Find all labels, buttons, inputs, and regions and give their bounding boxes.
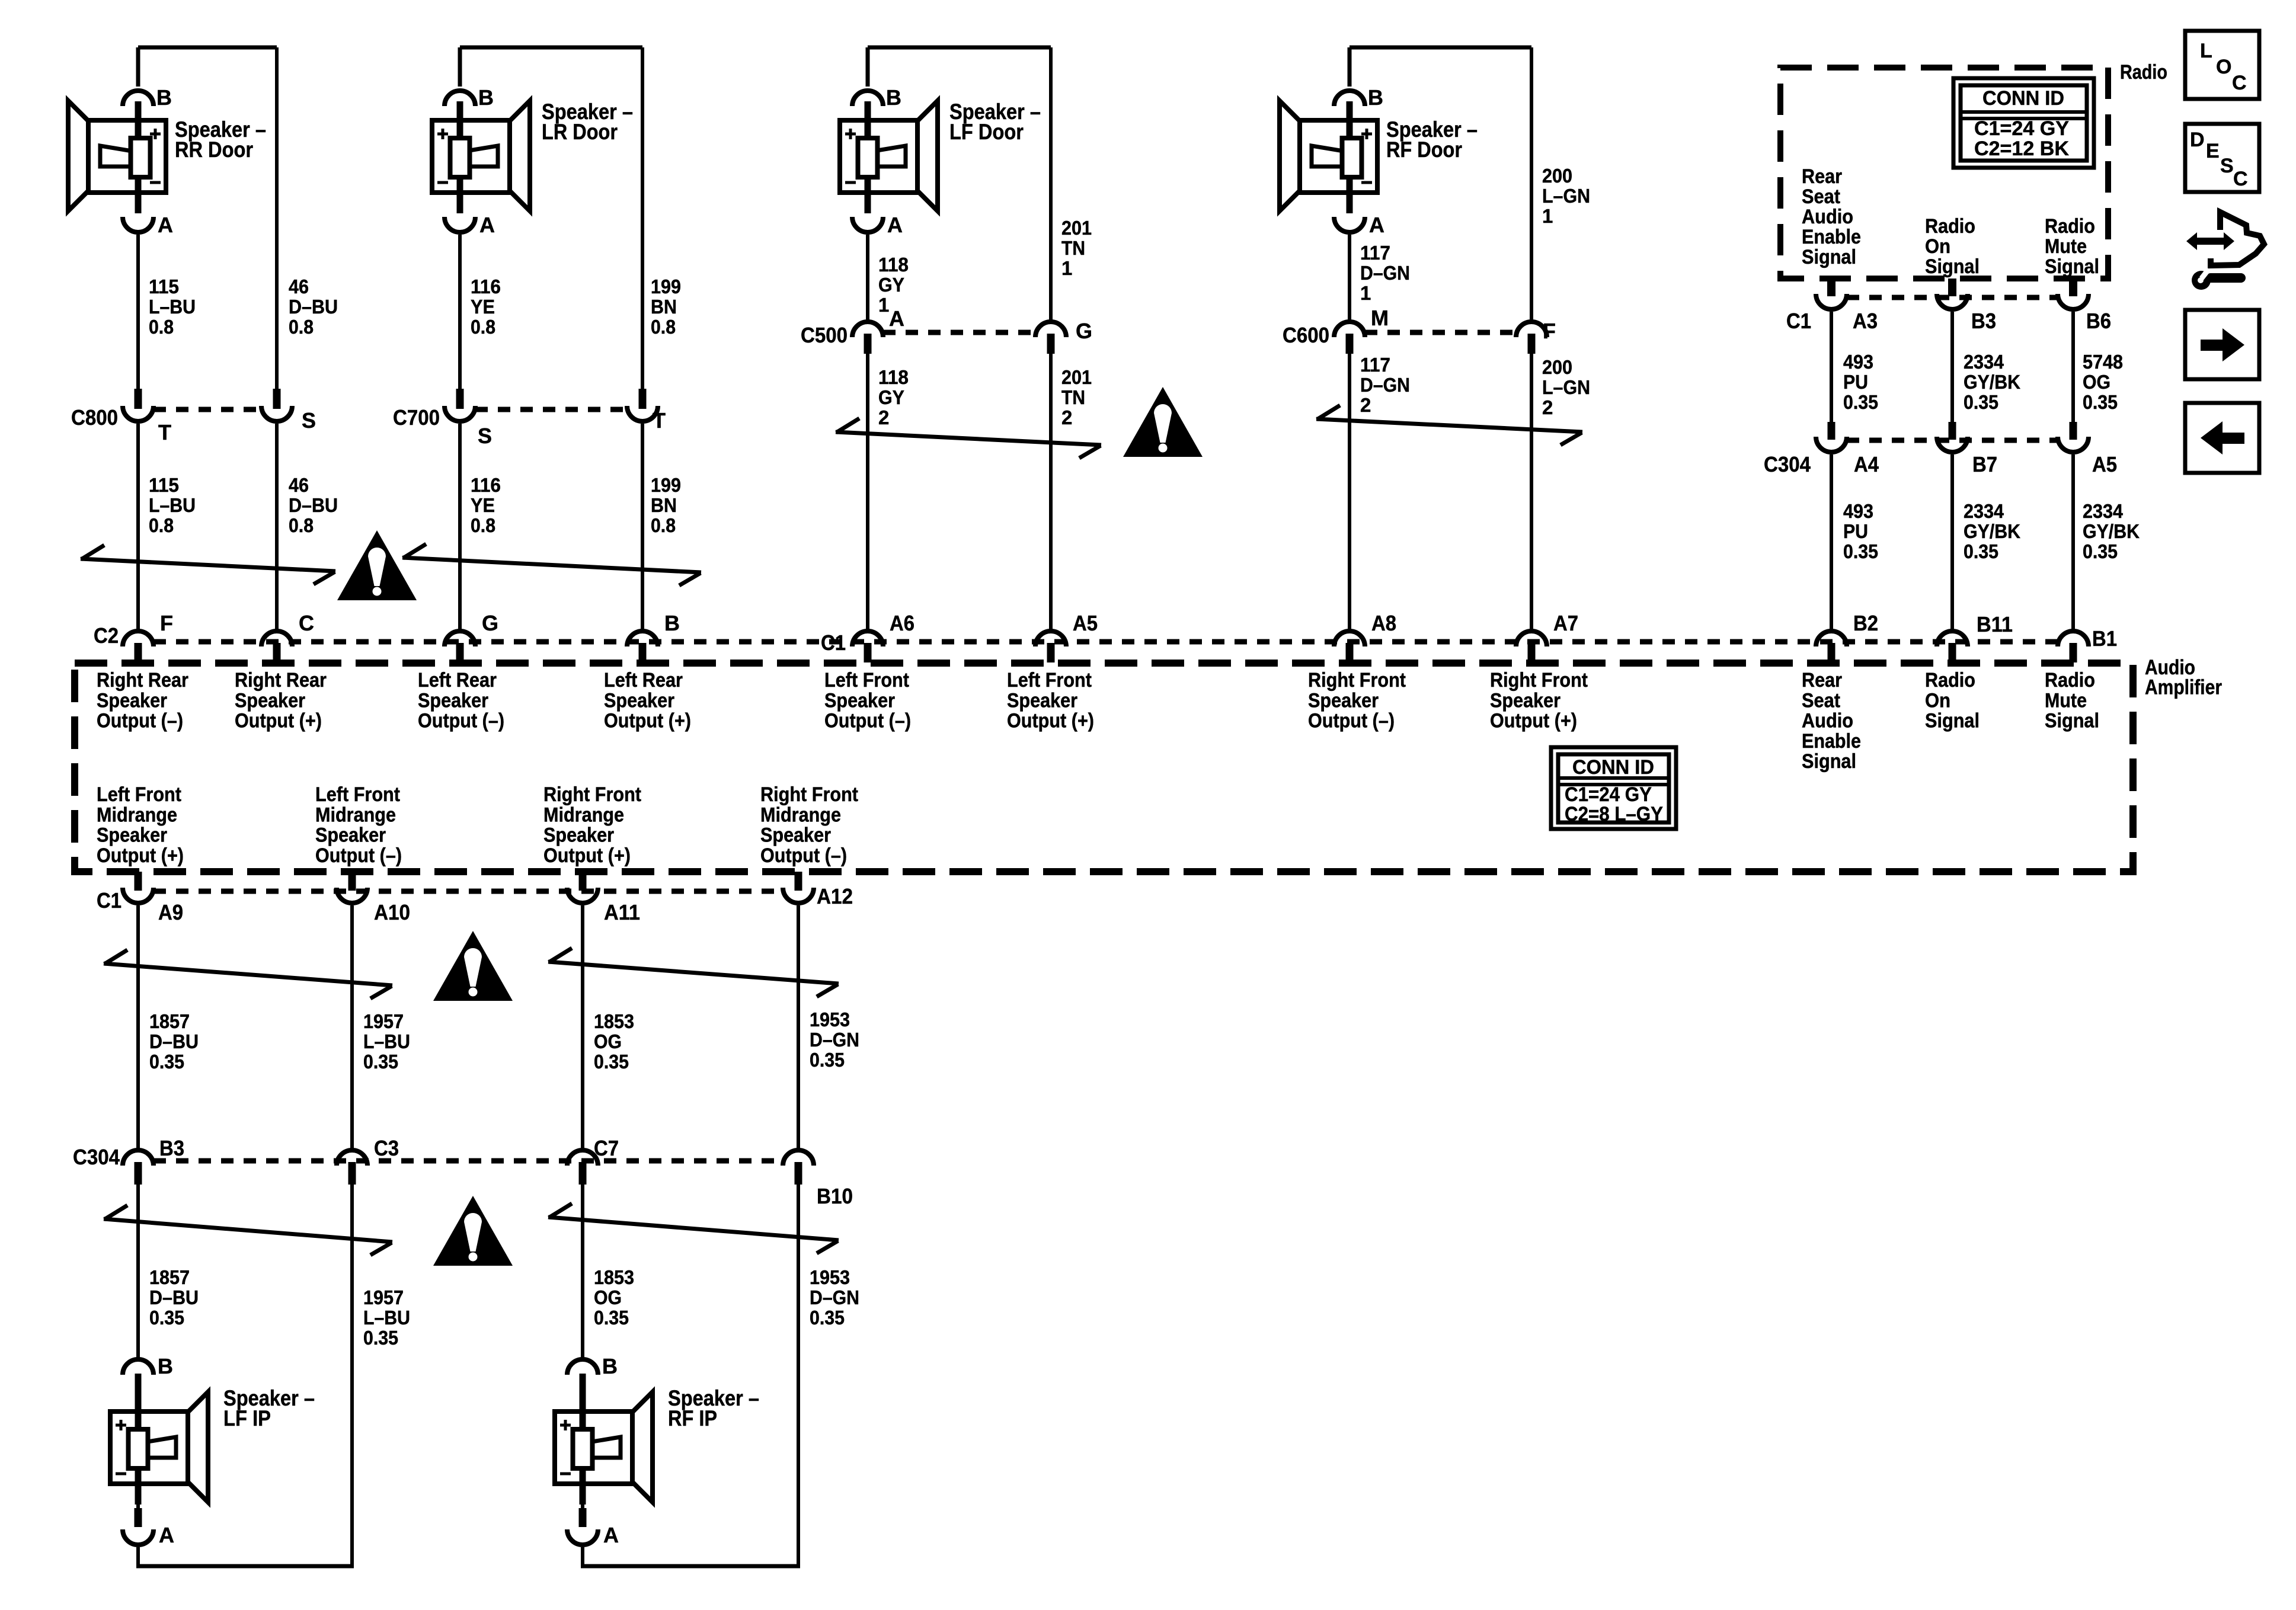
svg-text:C: C <box>2233 168 2248 190</box>
svg-text:C700: C700 <box>393 405 440 430</box>
svg-text:Speaker: Speaker <box>315 824 386 847</box>
svg-text:Left Front: Left Front <box>824 669 909 692</box>
svg-text:B: B <box>664 611 680 635</box>
svg-text:Left Rear: Left Rear <box>604 669 683 692</box>
svg-text:1853: 1853 <box>594 1266 634 1288</box>
svg-text:O: O <box>2216 56 2231 78</box>
svg-text:0.35: 0.35 <box>1964 391 1998 413</box>
svg-text:2: 2 <box>1360 394 1371 416</box>
svg-text:Radio: Radio <box>1925 669 1975 692</box>
svg-text:Signal: Signal <box>2045 255 2099 278</box>
svg-text:RR Door: RR Door <box>175 137 253 162</box>
svg-text:C500: C500 <box>801 323 848 347</box>
svg-text:Speaker: Speaker <box>824 689 895 712</box>
svg-text:LR Door: LR Door <box>542 120 618 144</box>
svg-text:T: T <box>158 420 171 444</box>
svg-text:Output (–): Output (–) <box>760 844 847 867</box>
svg-text:Signal: Signal <box>1802 246 1856 268</box>
svg-text:200: 200 <box>1542 165 1572 187</box>
svg-text:0.8: 0.8 <box>471 514 495 536</box>
svg-text:Speaker: Speaker <box>1490 689 1560 712</box>
svg-text:46: 46 <box>289 276 309 297</box>
svg-text:Signal: Signal <box>2045 710 2099 732</box>
svg-text:Output (+): Output (+) <box>97 844 184 867</box>
svg-text:A9: A9 <box>158 900 183 924</box>
svg-text:1857: 1857 <box>149 1010 190 1032</box>
svg-text:0.35: 0.35 <box>363 1051 398 1073</box>
svg-text:F: F <box>160 611 173 635</box>
svg-text:0.8: 0.8 <box>651 514 676 536</box>
svg-text:OG: OG <box>2083 371 2110 393</box>
svg-text:2334: 2334 <box>1964 351 2004 373</box>
svg-text:Output (+): Output (+) <box>235 710 322 732</box>
svg-text:S: S <box>2220 155 2234 177</box>
svg-text:Speaker: Speaker <box>543 824 614 847</box>
svg-text:Speaker: Speaker <box>97 689 167 712</box>
svg-text:2334: 2334 <box>2083 500 2124 522</box>
svg-text:1953: 1953 <box>810 1009 850 1030</box>
svg-text:B3: B3 <box>1971 309 1996 333</box>
svg-text:Speaker: Speaker <box>1007 689 1077 712</box>
svg-text:Seat: Seat <box>1802 689 1840 712</box>
svg-text:C1: C1 <box>97 888 121 913</box>
svg-text:2: 2 <box>878 406 889 428</box>
svg-text:117: 117 <box>1360 242 1390 264</box>
svg-text:A5: A5 <box>1073 611 1098 635</box>
svg-text:D–BU: D–BU <box>149 1286 199 1308</box>
svg-text:Mute: Mute <box>2045 235 2087 258</box>
svg-text:199: 199 <box>651 276 681 297</box>
svg-text:Speaker: Speaker <box>604 689 674 712</box>
svg-text:Output (–): Output (–) <box>824 710 911 732</box>
svg-text:L–GN: L–GN <box>1542 376 1590 398</box>
svg-text:D–GN: D–GN <box>1360 374 1410 396</box>
svg-text:L–BU: L–BU <box>149 494 196 516</box>
svg-text:A12: A12 <box>817 884 853 908</box>
svg-text:Output (+): Output (+) <box>543 844 631 867</box>
svg-text:L–GN: L–GN <box>1542 185 1590 207</box>
svg-text:OG: OG <box>594 1286 622 1308</box>
svg-text:Right Front: Right Front <box>760 783 858 806</box>
svg-text:1: 1 <box>1061 257 1072 279</box>
svg-text:LF Door: LF Door <box>949 120 1024 144</box>
svg-text:Mute: Mute <box>2045 689 2087 712</box>
svg-text:2: 2 <box>1542 396 1553 418</box>
svg-text:Left Front: Left Front <box>97 783 181 806</box>
svg-text:0.35: 0.35 <box>594 1307 629 1329</box>
svg-text:5748: 5748 <box>2083 351 2123 373</box>
svg-text:C2=8 L–GY: C2=8 L–GY <box>1565 803 1663 825</box>
svg-text:0.8: 0.8 <box>289 316 314 338</box>
svg-text:D–GN: D–GN <box>810 1286 859 1308</box>
svg-text:0.35: 0.35 <box>149 1307 184 1329</box>
svg-text:Radio: Radio <box>2045 669 2095 692</box>
svg-text:Audio: Audio <box>1802 710 1853 732</box>
svg-text:117: 117 <box>1360 354 1390 376</box>
svg-text:C600: C600 <box>1283 323 1329 347</box>
svg-text:BN: BN <box>651 494 677 516</box>
svg-text:Speaker: Speaker <box>760 824 831 847</box>
svg-text:B: B <box>886 85 901 110</box>
svg-text:Midrange: Midrange <box>315 804 396 826</box>
svg-text:Enable: Enable <box>1802 226 1861 248</box>
svg-text:A11: A11 <box>604 900 640 924</box>
svg-text:C1: C1 <box>821 630 846 655</box>
svg-text:Radio: Radio <box>1925 215 1975 238</box>
svg-text:RF IP: RF IP <box>668 1406 717 1430</box>
svg-text:200: 200 <box>1542 356 1572 378</box>
svg-text:On: On <box>1925 689 1950 712</box>
svg-text:C: C <box>2232 72 2247 94</box>
svg-text:0.8: 0.8 <box>471 316 495 338</box>
svg-text:M: M <box>1371 306 1389 330</box>
svg-text:Radio: Radio <box>2120 61 2167 84</box>
svg-text:A: A <box>479 213 495 237</box>
svg-text:YE: YE <box>471 296 495 318</box>
svg-text:C1=24 GY: C1=24 GY <box>1974 117 2069 140</box>
svg-text:PU: PU <box>1843 371 1868 393</box>
svg-text:A5: A5 <box>2092 452 2117 476</box>
svg-text:OG: OG <box>594 1030 622 1052</box>
svg-text:1: 1 <box>1542 205 1553 227</box>
svg-text:G: G <box>1076 319 1092 343</box>
svg-text:L: L <box>2200 40 2212 62</box>
svg-text:199: 199 <box>651 474 681 496</box>
svg-text:B10: B10 <box>817 1184 853 1208</box>
svg-text:C: C <box>299 611 314 635</box>
svg-text:Output (+): Output (+) <box>1007 710 1094 732</box>
svg-text:Right Front: Right Front <box>543 783 641 806</box>
svg-text:Seat: Seat <box>1802 185 1840 208</box>
svg-text:C2: C2 <box>94 623 119 648</box>
svg-text:Speaker: Speaker <box>235 689 305 712</box>
svg-text:Right Front: Right Front <box>1308 669 1406 692</box>
svg-text:115: 115 <box>149 474 179 496</box>
svg-text:0.35: 0.35 <box>594 1051 629 1073</box>
svg-text:TN: TN <box>1061 237 1085 259</box>
svg-text:B7: B7 <box>1972 452 1997 476</box>
svg-text:Rear: Rear <box>1802 669 1842 692</box>
svg-text:Output (–): Output (–) <box>418 710 504 732</box>
svg-text:Speaker: Speaker <box>1308 689 1379 712</box>
svg-text:L–BU: L–BU <box>363 1307 410 1329</box>
svg-text:B6: B6 <box>2086 309 2111 333</box>
svg-text:TN: TN <box>1061 386 1085 408</box>
svg-text:GY/BK: GY/BK <box>1964 520 2020 542</box>
svg-text:0.35: 0.35 <box>1843 391 1878 413</box>
svg-text:F: F <box>1543 319 1556 343</box>
svg-text:G: G <box>482 611 498 635</box>
svg-text:0.35: 0.35 <box>2083 391 2118 413</box>
svg-text:BN: BN <box>651 296 677 318</box>
svg-text:Output (+): Output (+) <box>1490 710 1577 732</box>
svg-text:2334: 2334 <box>1964 500 2004 522</box>
svg-text:Output (+): Output (+) <box>604 710 691 732</box>
svg-text:Output (–): Output (–) <box>315 844 402 867</box>
svg-text:Audio: Audio <box>1802 206 1853 228</box>
svg-text:46: 46 <box>289 474 309 496</box>
svg-text:Amplifier: Amplifier <box>2145 676 2222 699</box>
svg-text:1957: 1957 <box>363 1286 404 1308</box>
svg-text:B: B <box>478 85 494 110</box>
svg-text:118: 118 <box>878 366 909 388</box>
svg-text:C304: C304 <box>1764 452 1811 476</box>
svg-text:B3: B3 <box>159 1136 184 1160</box>
svg-text:C304: C304 <box>73 1145 120 1169</box>
svg-text:B: B <box>1368 85 1383 110</box>
svg-text:A: A <box>887 213 903 237</box>
svg-text:Right Rear: Right Rear <box>97 669 188 692</box>
svg-text:201: 201 <box>1061 366 1092 388</box>
svg-text:B2: B2 <box>1853 611 1878 635</box>
svg-text:Left Rear: Left Rear <box>418 669 497 692</box>
svg-text:0.35: 0.35 <box>1843 540 1878 562</box>
svg-text:GY: GY <box>878 386 904 408</box>
svg-text:Signal: Signal <box>1925 255 1980 278</box>
svg-text:S: S <box>478 424 492 448</box>
svg-text:493: 493 <box>1843 351 1873 373</box>
svg-text:Rear: Rear <box>1802 165 1842 188</box>
svg-text:2: 2 <box>1061 406 1072 428</box>
svg-text:E: E <box>2206 140 2220 162</box>
svg-text:B: B <box>602 1354 618 1378</box>
svg-text:0.35: 0.35 <box>363 1327 398 1349</box>
svg-text:0.8: 0.8 <box>651 316 676 338</box>
svg-text:D–GN: D–GN <box>1360 262 1410 284</box>
svg-text:0.35: 0.35 <box>1964 540 1998 562</box>
svg-text:493: 493 <box>1843 500 1873 522</box>
svg-text:1: 1 <box>878 294 889 316</box>
svg-text:Left Front: Left Front <box>1007 669 1092 692</box>
svg-text:116: 116 <box>471 474 501 496</box>
svg-text:Speaker: Speaker <box>97 824 167 847</box>
svg-text:A: A <box>159 1523 174 1547</box>
svg-text:A: A <box>1369 213 1384 237</box>
svg-text:YE: YE <box>471 494 495 516</box>
svg-text:Signal: Signal <box>1925 710 1980 732</box>
svg-text:D–BU: D–BU <box>289 494 338 516</box>
svg-text:D: D <box>2190 129 2205 151</box>
svg-text:1957: 1957 <box>363 1010 404 1032</box>
svg-text:RF Door: RF Door <box>1386 137 1462 162</box>
svg-text:PU: PU <box>1843 520 1868 542</box>
svg-text:Right Front: Right Front <box>1490 669 1588 692</box>
svg-text:0.35: 0.35 <box>149 1051 184 1073</box>
svg-text:C1: C1 <box>1786 309 1811 333</box>
svg-text:On: On <box>1925 235 1950 258</box>
svg-text:118: 118 <box>878 254 909 276</box>
svg-text:A7: A7 <box>1553 611 1578 635</box>
svg-text:A10: A10 <box>374 900 410 924</box>
svg-text:B: B <box>156 85 172 110</box>
svg-text:D–BU: D–BU <box>149 1030 199 1052</box>
svg-text:A8: A8 <box>1371 611 1396 635</box>
svg-text:A6: A6 <box>890 611 914 635</box>
svg-text:A: A <box>603 1523 619 1547</box>
svg-text:S: S <box>302 408 316 433</box>
svg-text:B1: B1 <box>2092 626 2117 651</box>
svg-text:0.8: 0.8 <box>289 514 314 536</box>
svg-text:GY/BK: GY/BK <box>1964 371 2020 393</box>
svg-text:C7: C7 <box>594 1136 619 1160</box>
svg-text:A: A <box>158 213 173 237</box>
svg-text:Left Front: Left Front <box>315 783 400 806</box>
svg-text:Midrange: Midrange <box>543 804 624 826</box>
svg-text:GY/BK: GY/BK <box>2083 520 2140 542</box>
svg-text:A3: A3 <box>1853 309 1878 333</box>
svg-text:C3: C3 <box>374 1136 399 1160</box>
svg-text:B: B <box>158 1354 173 1378</box>
svg-text:0.35: 0.35 <box>810 1307 845 1329</box>
svg-text:CONN ID: CONN ID <box>1572 756 1654 779</box>
svg-text:T: T <box>653 408 666 433</box>
svg-text:D–GN: D–GN <box>810 1029 859 1051</box>
svg-text:D–BU: D–BU <box>289 296 338 318</box>
svg-text:Output (–): Output (–) <box>97 710 183 732</box>
svg-text:A: A <box>889 306 904 331</box>
svg-text:C800: C800 <box>71 405 118 430</box>
svg-text:Signal: Signal <box>1802 750 1856 773</box>
svg-text:Radio: Radio <box>2045 215 2095 238</box>
svg-text:0.35: 0.35 <box>810 1049 845 1071</box>
svg-text:B11: B11 <box>1977 612 2013 636</box>
svg-text:0.8: 0.8 <box>149 316 174 338</box>
svg-text:Midrange: Midrange <box>760 804 841 826</box>
svg-text:201: 201 <box>1061 217 1092 239</box>
svg-text:Midrange: Midrange <box>97 804 177 826</box>
svg-text:L–BU: L–BU <box>363 1030 410 1052</box>
svg-text:GY: GY <box>878 274 904 296</box>
svg-text:1857: 1857 <box>149 1266 190 1288</box>
svg-text:1953: 1953 <box>810 1266 850 1288</box>
svg-text:115: 115 <box>149 276 179 297</box>
svg-text:0.8: 0.8 <box>149 514 174 536</box>
svg-text:Right Rear: Right Rear <box>235 669 327 692</box>
svg-text:Output (–): Output (–) <box>1308 710 1395 732</box>
svg-text:L–BU: L–BU <box>149 296 196 318</box>
svg-text:0.35: 0.35 <box>2083 540 2118 562</box>
svg-text:A4: A4 <box>1854 452 1879 476</box>
svg-text:Enable: Enable <box>1802 730 1861 753</box>
svg-text:CONN ID: CONN ID <box>1982 87 2064 110</box>
svg-text:1853: 1853 <box>594 1010 634 1032</box>
svg-text:116: 116 <box>471 276 501 297</box>
svg-text:C2=12 BK: C2=12 BK <box>1974 137 2069 160</box>
svg-text:LF IP: LF IP <box>223 1406 271 1430</box>
svg-text:1: 1 <box>1360 282 1371 304</box>
svg-text:Speaker: Speaker <box>418 689 488 712</box>
